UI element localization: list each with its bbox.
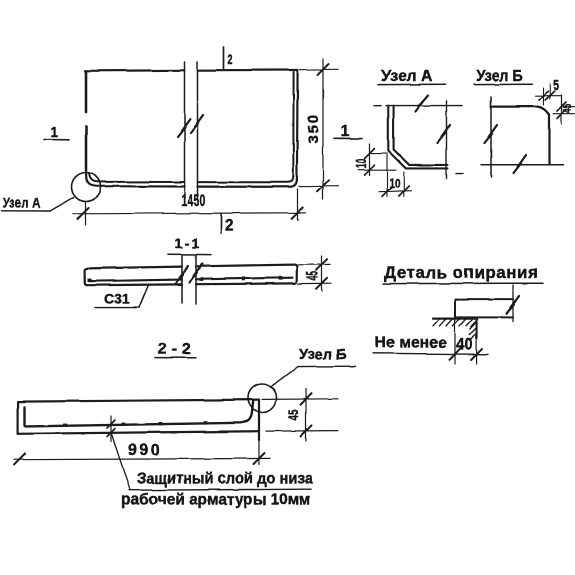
svg-text:Деталь опирания: Деталь опирания: [384, 263, 538, 282]
svg-text:1: 1: [51, 124, 59, 141]
svg-text:Узел А: Узел А: [3, 195, 40, 211]
svg-text:Узел А: Узел А: [381, 68, 433, 85]
svg-text:Не менее: Не менее: [375, 334, 447, 351]
svg-text:С31: С31: [104, 291, 130, 307]
svg-text:10: 10: [353, 159, 370, 169]
svg-text:2-2: 2-2: [158, 341, 196, 358]
svg-text:Узел Б: Узел Б: [299, 347, 347, 363]
svg-text:10: 10: [389, 178, 400, 191]
svg-text:350: 350: [305, 113, 322, 143]
svg-text:5: 5: [553, 76, 559, 93]
svg-text:40: 40: [456, 335, 473, 354]
svg-text:Защитный слой до низа: Защитный слой до низа: [137, 470, 313, 488]
svg-text:1: 1: [341, 123, 350, 140]
svg-text:45: 45: [304, 272, 322, 281]
svg-text:рабочей арматуры 10мм: рабочей арматуры 10мм: [121, 491, 311, 508]
svg-text:1450: 1450: [181, 190, 206, 209]
svg-text:990: 990: [128, 442, 162, 459]
svg-text:2: 2: [228, 52, 233, 67]
svg-text:2: 2: [225, 216, 234, 235]
svg-text:1-1: 1-1: [175, 235, 201, 251]
svg-text:Узел Б: Узел Б: [476, 67, 523, 85]
svg-text:45: 45: [561, 103, 573, 113]
svg-text:45: 45: [286, 409, 302, 420]
